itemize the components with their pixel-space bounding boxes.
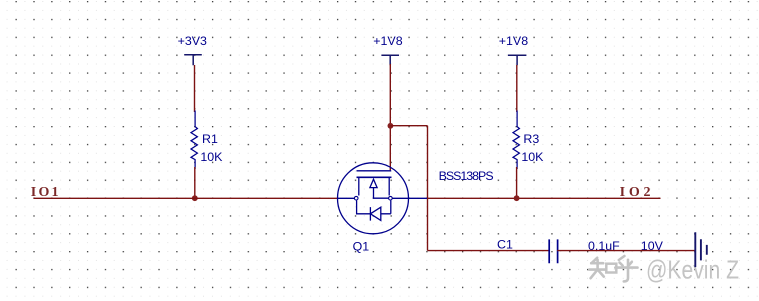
wire branch vertical [427,126,429,251]
transistor Q1 (BSS138PS MOSFET) [338,163,428,234]
junction gate branch [388,123,394,129]
Q1 body circle [338,163,409,234]
Q1 gate bar [357,170,392,172]
power +1V8 (right) [508,55,527,65]
Q1 pin stub (left) [338,197,354,199]
svg-text:Q1: Q1 [353,240,370,254]
svg-text:BSS138PS: BSS138PS [439,169,494,183]
svg-text:10K: 10K [200,150,223,164]
resistor R3 [513,111,519,170]
svg-text:+1V8: +1V8 [499,34,528,48]
svg-text:IO2: IO2 [620,185,655,200]
Q1 channel bar [357,176,392,178]
wire branch to C1 (horizontal bottom) [428,250,550,252]
wire R1 to IO1 net [194,167,196,198]
Q1 pin circle (right) [389,196,393,200]
junction R1/IO1 [192,195,198,201]
Q1 source vertical (right) [388,177,390,195]
svg-text:+1V8: +1V8 [373,34,402,48]
Q1 drain vertical (left) [358,177,360,195]
wire +1V8 to R3 [516,65,518,112]
svg-text:C1: C1 [497,238,513,252]
wire +1V8 to gate [389,64,391,170]
wire IO2 segment [427,197,661,199]
Q1 pin circle (left) [354,196,358,200]
wire C1 to ground [557,250,695,252]
svg-text:R3: R3 [523,132,539,146]
wire R3 to IO2 net [516,167,518,198]
Q1 bulk arrow [374,188,390,198]
Q1 pin stub (right) [392,197,427,199]
svg-text:@Kevin Z: @Kevin Z [646,255,739,285]
wire IO1 segment [34,197,339,199]
Q1 body diode [357,201,391,221]
capacitor C1 [549,239,557,263]
svg-text:10K: 10K [521,150,544,164]
power +3V3 [184,55,202,65]
svg-text:+3V3: +3V3 [178,34,207,48]
svg-text:R1: R1 [202,132,218,146]
ground [695,232,707,267]
svg-text:IO1: IO1 [31,185,61,200]
resistor R1 [191,111,197,170]
wire branch to C1 (horizontal top) [390,125,427,127]
power +1V8 (left) [381,55,399,65]
wire +3V3 to R1 [194,65,196,112]
watermark [589,256,637,281]
junction R3/IO2 [514,195,520,201]
